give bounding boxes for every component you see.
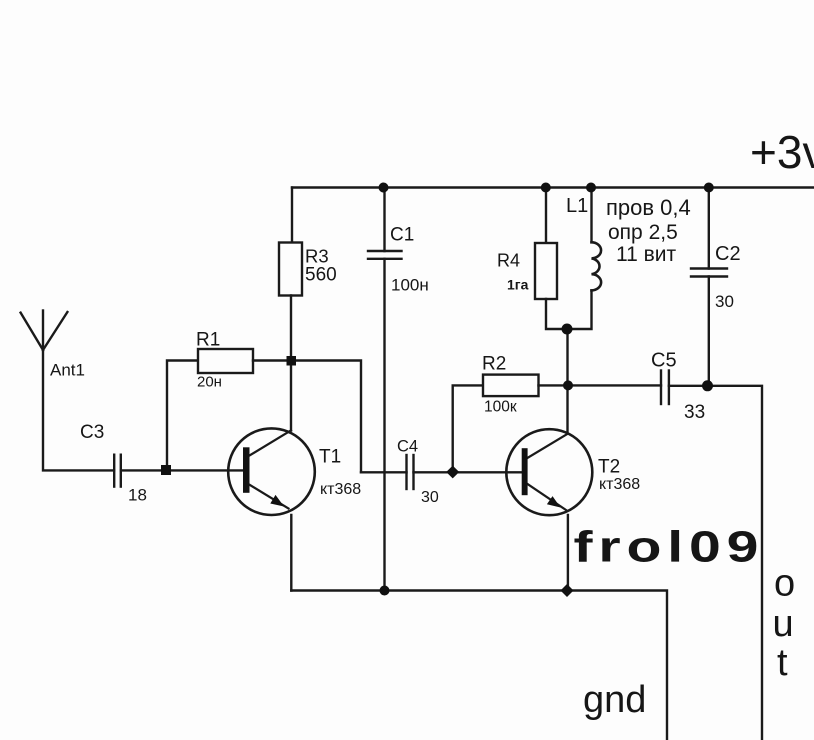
svg-text:1га: 1га (507, 277, 529, 293)
svg-text:T2: T2 (598, 457, 620, 478)
svg-text:C5: C5 (651, 350, 677, 372)
svg-text:кт368: кт368 (320, 481, 361, 498)
svg-text:C3: C3 (80, 422, 104, 443)
svg-text:t: t (777, 642, 788, 684)
svg-text:11 вит: 11 вит (616, 243, 677, 266)
svg-text:o: o (774, 563, 795, 605)
svg-text:u: u (773, 603, 794, 645)
svg-text:C2: C2 (715, 243, 741, 265)
svg-text:100к: 100к (484, 399, 517, 416)
svg-text:33: 33 (684, 402, 705, 423)
svg-text:560: 560 (305, 265, 337, 286)
svg-text:T1: T1 (319, 447, 341, 468)
svg-text:пров 0,4: пров 0,4 (606, 195, 691, 220)
svg-text:L1: L1 (566, 195, 588, 217)
svg-text:R2: R2 (482, 354, 506, 375)
svg-text:R1: R1 (196, 330, 220, 351)
svg-text:frol09: frol09 (574, 522, 765, 571)
svg-text:опр 2,5: опр 2,5 (608, 221, 678, 244)
svg-text:100н: 100н (391, 276, 429, 295)
svg-text:20н: 20н (197, 374, 222, 391)
svg-text:gnd: gnd (583, 679, 646, 721)
svg-text:кт368: кт368 (599, 476, 640, 493)
svg-text:C4: C4 (397, 438, 418, 456)
svg-text:30: 30 (715, 292, 734, 311)
svg-text:+3v: +3v (750, 126, 814, 178)
svg-text:Ant1: Ant1 (50, 361, 85, 380)
svg-text:18: 18 (128, 486, 147, 505)
svg-text:C1: C1 (390, 225, 414, 246)
svg-text:30: 30 (421, 489, 439, 506)
svg-text:R4: R4 (497, 251, 520, 271)
svg-text:R3: R3 (305, 246, 329, 267)
